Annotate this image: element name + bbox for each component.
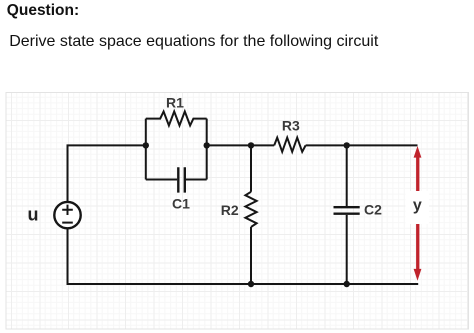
grid background of schematic capture (6, 93, 469, 330)
svg-text:u: u (28, 205, 39, 225)
wire: mid horizontal from box to R3 (207, 144, 275, 146)
wire: C2 branch lower lead (346, 215, 348, 284)
resistor R1 (146, 112, 207, 126)
capacitor C1 leads (146, 179, 207, 181)
wire: parallel box left vertical (145, 119, 147, 180)
title line "Question:" (7, 2, 79, 20)
node: C2 bottom junction (344, 281, 350, 287)
wire: top-left horizontal + left vertical down to source top (68, 145, 146, 202)
resistor R2 (245, 192, 256, 227)
node: box left junction (143, 142, 149, 148)
prompt line (9, 33, 378, 51)
svg-text:R3: R3 (282, 117, 300, 133)
resistor R3 (274, 138, 305, 152)
node: R2 bottom junction (248, 281, 254, 287)
wire: R2 branch upper lead (250, 145, 252, 191)
wire: parallel box right vertical (206, 119, 208, 180)
wire: source bottom down and bottom horizontal rail (68, 228, 419, 284)
svg-text:C1: C1 (172, 195, 190, 211)
svg-text:R1: R1 (166, 95, 184, 111)
wire: top-right horizontal to output (306, 144, 418, 146)
node: C2 top junction (344, 142, 350, 148)
svg-text:R2: R2 (221, 202, 239, 218)
node: box right junction (204, 142, 210, 148)
node: R2 top junction (248, 142, 254, 148)
capacitor C2 plates (334, 207, 360, 214)
voltage source plus sign (62, 205, 73, 215)
wire: C2 branch upper lead (346, 145, 348, 206)
wire: R2 branch lower lead (250, 227, 252, 284)
voltage source u circle (54, 202, 80, 228)
svg-text:y: y (413, 197, 422, 214)
capacitor C1 plates (178, 167, 185, 192)
svg-text:C2: C2 (364, 202, 382, 218)
voltage source minus sign (62, 222, 73, 224)
label plate behind y (406, 191, 430, 224)
output arrow y (red, double-headed) (414, 146, 422, 281)
